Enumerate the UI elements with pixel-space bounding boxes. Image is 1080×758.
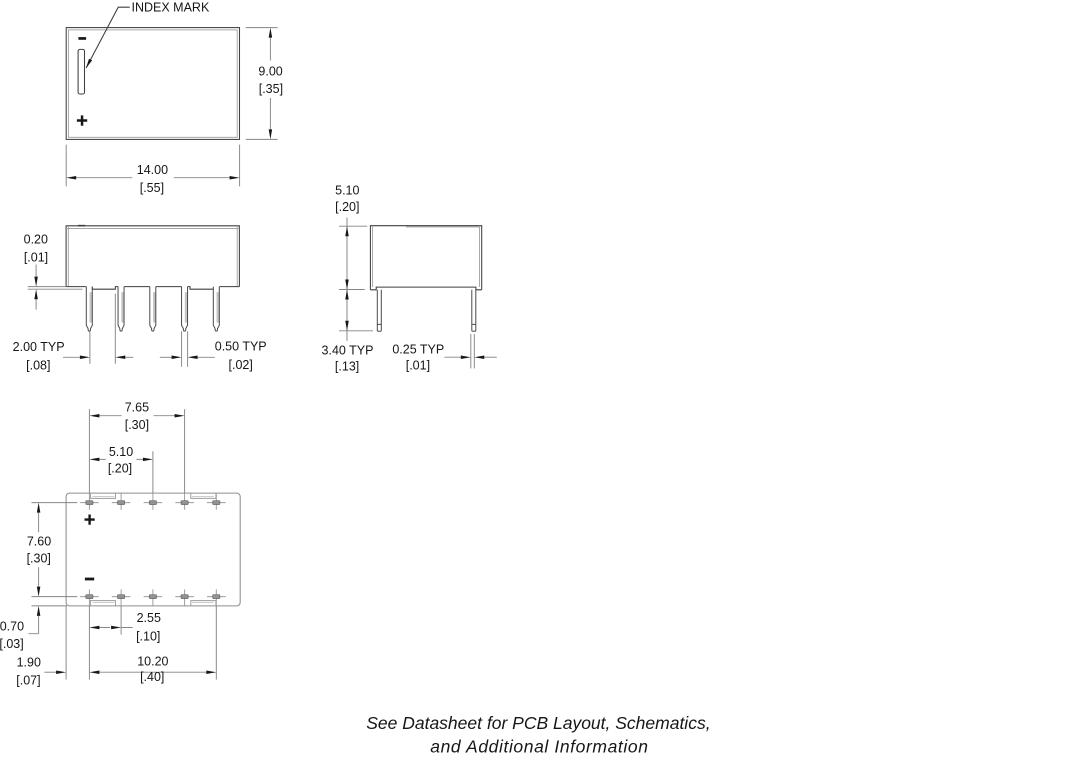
bottom view: package body (66, 493, 240, 606)
bottom view pad bottom row pin 2 (112, 589, 131, 606)
svg-text:3.40 TYP: 3.40 TYP (322, 344, 374, 358)
extension line body bottom edge left (32, 605, 68, 607)
svg-text:[.02]: [.02] (229, 358, 253, 372)
side view: bottom edge with corner feet (370, 287, 481, 290)
svg-text:[.30]: [.30] (125, 418, 149, 432)
svg-text:5.10: 5.10 (109, 445, 133, 459)
side view: body outline (370, 226, 481, 290)
side view: left pin (377, 290, 381, 332)
svg-text:7.65: 7.65 (125, 400, 149, 414)
seating plane extension line (339, 289, 365, 291)
front view: bottom edge segment pins 2-3 (124, 286, 150, 288)
svg-text:[.13]: [.13] (335, 359, 359, 373)
side view: right inner line (479, 226, 481, 287)
front view: standoff boss between pins 4-5 (188, 287, 214, 290)
svg-text:[.30]: [.30] (27, 551, 51, 565)
dim 7.60 arrowheads (37, 503, 41, 513)
front view pin 3 shading (153, 292, 156, 322)
front view pin 4 outline (182, 287, 188, 332)
front view: right inner line (236, 226, 238, 287)
svg-text:7.60: 7.60 (27, 535, 51, 549)
dim 14.00 arrowheads (66, 176, 76, 180)
bottom view pad top row pin 4 (175, 493, 194, 510)
front view pin 5 shading (217, 292, 220, 322)
bottom view pad top row pin 1 (80, 493, 99, 510)
bottom view: notch top-right (191, 493, 216, 498)
bottom view: notch bottom-left (90, 601, 115, 606)
front view: body top and side edges (66, 226, 239, 287)
dim 0.50 TYP right arrow (188, 356, 198, 360)
extension line top pin row left (32, 502, 78, 504)
svg-text:2.55: 2.55 (137, 611, 161, 625)
svg-text:[.55]: [.55] (140, 181, 164, 195)
dim 2.00 TYP left arrow (63, 356, 80, 358)
dim 0.50 TYP left arrow (160, 356, 172, 358)
svg-text:[.01]: [.01] (24, 250, 48, 264)
bottom view: notch bottom-right (191, 601, 216, 606)
dim 10.20 dimension line (99, 671, 206, 673)
svg-text:5.10: 5.10 (335, 183, 359, 197)
front view pin 2 outline (118, 287, 124, 332)
side view: left inner line (372, 226, 374, 287)
svg-text:0.20: 0.20 (24, 232, 48, 246)
svg-text:See Datasheet for PCB Layout,: See Datasheet for PCB Layout, Schematics… (366, 713, 710, 733)
svg-text:INDEX MARK: INDEX MARK (132, 0, 210, 14)
dim 14.00 extension lines (66, 145, 239, 187)
dim 0.50 TYP extension line a (181, 331, 183, 367)
front view: bottom edge segment pins 3-4 (156, 286, 182, 288)
svg-text:and Additional Information: and Additional Information (430, 736, 648, 756)
polarity plus symbol (bottom view) (85, 515, 95, 525)
dim 2.00 TYP extension line b (114, 294, 116, 364)
polarity plus symbol (top view) (77, 115, 87, 125)
extension line pin3 column up (152, 451, 154, 493)
dim 1.90 arrow (44, 671, 56, 673)
front view: top inner line (66, 227, 239, 229)
svg-text:1.90: 1.90 (17, 655, 41, 669)
bottom view pad top row pin 5 (207, 493, 226, 510)
svg-text:2.00 TYP: 2.00 TYP (13, 340, 65, 354)
front view pin 1 shading (90, 292, 93, 322)
notch inner lip lines (93, 497, 214, 603)
svg-text:[.35]: [.35] (259, 82, 283, 96)
bottom view pad bottom row pin 1 (80, 589, 99, 606)
dim 5.10 top extension line (339, 225, 367, 227)
extension line pin5 column down (215, 606, 217, 680)
dim 0.20 lower arrow stem (35, 299, 37, 309)
dim 0.70 leader (29, 616, 39, 634)
dim 9.00 dimension line (269, 38, 271, 130)
dim 2.55 arrowheads (89, 626, 99, 630)
extension line pin2 column down (120, 606, 122, 635)
dim 5.10 / 3.40 shared dimension line (346, 218, 348, 341)
dim 5.10 arrowheads (bottom view) (89, 458, 99, 462)
svg-text:[.01]: [.01] (406, 359, 430, 373)
dim 7.65 arrowheads (89, 414, 99, 418)
dim 9.00 arrowheads (269, 28, 273, 38)
front view: index mark bump on top edge (78, 225, 85, 227)
leader line to INDEX MARK label (86, 7, 130, 68)
svg-text:14.00: 14.00 (137, 163, 168, 177)
svg-text:0.50 TYP: 0.50 TYP (215, 340, 267, 354)
bottom view pad bottom row pin 4 (175, 589, 194, 606)
dim 2.00 TYP right arrow (115, 356, 125, 360)
dim 5.10 arrowheads (345, 226, 349, 236)
index mark rectangle (78, 49, 84, 94)
svg-text:9.00: 9.00 (258, 65, 282, 79)
dim 9.00 extension lines (246, 28, 278, 140)
dim 14.00 dimension line (76, 177, 229, 179)
front view pin 5 outline (213, 287, 219, 332)
dim 0.50 TYP extension line b (187, 331, 189, 367)
dim 0.25 left arrow (444, 356, 461, 358)
svg-text:[.03]: [.03] (0, 637, 24, 651)
front view pin 4 shading (185, 292, 188, 322)
front view: bottom edge right segment (219, 286, 239, 288)
leader arrowhead (84, 59, 92, 69)
svg-text:[.08]: [.08] (26, 358, 50, 372)
extension line pin1 column down (88, 606, 90, 680)
front view: bottom edge left segment (66, 286, 86, 288)
bottom view pad top row pin 3 (144, 493, 163, 510)
side view: right pin (472, 290, 476, 332)
dim 0.25 extension lines (471, 334, 475, 368)
front view pin 2 shading (121, 292, 124, 322)
dim 2.55 dimension line (99, 627, 132, 629)
dim 2.00 TYP extension line a (89, 331, 91, 363)
svg-text:[.10]: [.10] (136, 629, 160, 643)
svg-text:0.70: 0.70 (0, 619, 24, 633)
extension line bottom pin row left (32, 596, 78, 598)
side view: top inner line (406, 226, 480, 228)
bottom view pad bottom row pin 3 (144, 589, 163, 606)
dim 0.20 upper arrowhead (34, 277, 38, 287)
dim 7.60 dimension line (38, 513, 40, 587)
front view: left inner line (67, 226, 69, 287)
dim 0.25 right arrow (474, 355, 484, 359)
polarity minus symbol (top view) (78, 37, 86, 40)
dim 0.70 arrowhead (37, 606, 41, 616)
front view pin 3 outline (150, 287, 156, 332)
svg-text:10.20: 10.20 (137, 654, 168, 668)
svg-text:[.20]: [.20] (108, 462, 132, 476)
svg-text:0.25 TYP: 0.25 TYP (392, 343, 444, 357)
extension line pin1 column up (88, 409, 90, 493)
extension line pin4 column up (184, 409, 186, 493)
dim 0.20 extension line upper (28, 286, 66, 288)
dim 5.10 dimension line (bottom view) (99, 458, 142, 460)
top view: package body inner line (68, 30, 237, 137)
dim 7.65 dimension line (99, 415, 174, 417)
svg-text:[.07]: [.07] (16, 674, 40, 688)
front view pin 1 outline (86, 287, 92, 332)
dim 0.20 upper arrow stem (35, 265, 37, 277)
bottom view: notch top-left (90, 493, 115, 498)
svg-text:[.20]: [.20] (335, 200, 359, 214)
extension line body left edge down (65, 606, 67, 680)
top view: package body outer outline (66, 28, 239, 140)
svg-text:[.40]: [.40] (140, 670, 164, 684)
bottom view pad top row pin 2 (112, 493, 131, 510)
dim 0.20 extension line lower (28, 288, 83, 290)
dim 3.40 arrowheads (345, 290, 349, 300)
polarity minus symbol (bottom view) (85, 578, 94, 581)
dim 10.20 arrowheads (89, 670, 99, 674)
bottom view pad bottom row pin 5 (207, 589, 226, 606)
front view: standoff boss between pins 1-2 (92, 287, 118, 290)
pin end extension line (339, 330, 373, 332)
dim 0.20 lower arrowhead (34, 289, 38, 299)
